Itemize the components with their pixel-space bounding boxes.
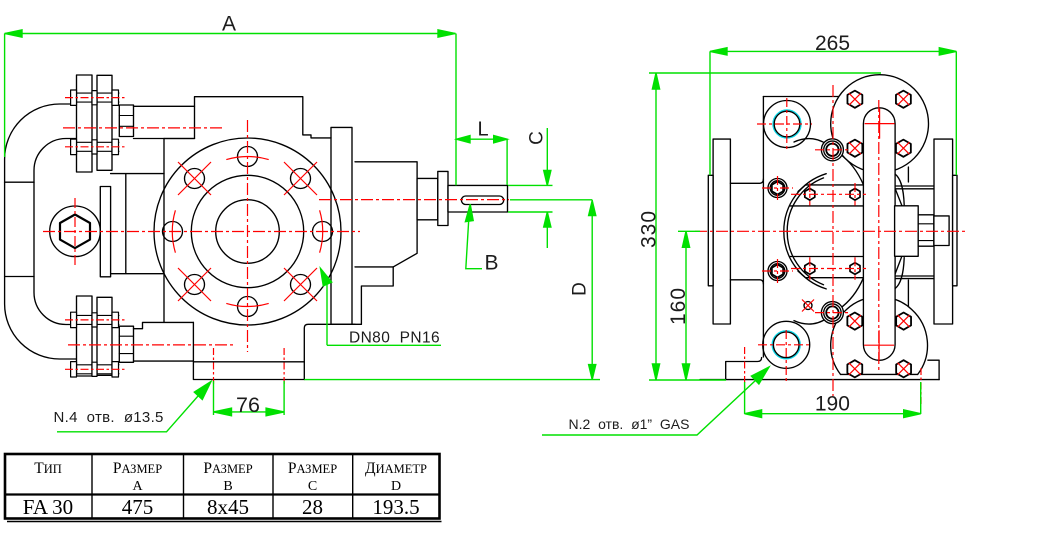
svg-text:ТИП: ТИП (34, 460, 62, 477)
rv top gear cross (865, 109, 895, 139)
top hex nipple (119, 105, 133, 137)
svg-text:FA 30: FA 30 (23, 495, 73, 519)
rv left bolt top (768, 179, 787, 198)
flange bolt hole SW (185, 275, 205, 295)
rv gear hex T-NE (896, 91, 911, 108)
lv hole SW cross (178, 268, 211, 301)
bypass U-pipe outer contour (5, 104, 77, 359)
rv window bolt row top (791, 193, 866, 195)
rv window top line (790, 205, 864, 207)
flange bolt hole left (163, 222, 183, 242)
top flange bolt 1 rod (71, 93, 119, 102)
rv casing outer arc bottom right (839, 278, 864, 309)
svg-text:8x45: 8x45 (207, 495, 249, 519)
rv base right (928, 360, 939, 379)
svg-text:B: B (484, 252, 498, 275)
lv bolt circle arc top (226, 157, 268, 160)
RED-CENTERLINES (43, 85, 965, 405)
rv casing ring arc 1 (784, 174, 826, 289)
svg-text:475: 475 (122, 495, 154, 519)
table column dividers (92, 454, 353, 519)
table header divider (5, 493, 440, 495)
CYAN port threads (773, 110, 801, 358)
flange bolt hole NW (185, 169, 205, 189)
rv window bottom line (790, 256, 864, 258)
shaft (448, 185, 508, 212)
rv top port bore (774, 111, 800, 137)
rv bottom port bore (773, 332, 799, 358)
lv top bolt1 axis (65, 97, 126, 99)
keyway (461, 196, 503, 205)
plug mount plate (111, 174, 164, 274)
dim 265 ext left (709, 51, 711, 175)
rv left bolt bottom (768, 262, 787, 281)
rv casing outer arc top right (839, 154, 864, 185)
rv window upper step (798, 185, 863, 192)
rv nut facets (918, 224, 934, 241)
rv window bolt SE (850, 263, 860, 275)
rv gear bolt X B-SW (849, 363, 861, 375)
LEFT-VIEW-BLACK (5, 75, 508, 380)
rv gear bolt X T-NE (897, 93, 909, 105)
dim 330/160 ext bottom (649, 379, 726, 381)
RIGHT-VIEW-BLACK (700, 75, 957, 380)
dim 160 ext top (678, 230, 700, 232)
svg-text:28: 28 (302, 495, 323, 519)
bottom flange bolt 2 rod (71, 365, 119, 374)
rv gear bolt X B-NE (898, 315, 910, 327)
rv window bolt row bottom (791, 268, 866, 270)
rv gear hex B-SW (847, 360, 862, 377)
dim C line bottom (546, 212, 548, 248)
lv hole SE cross (284, 268, 317, 301)
lv hole NW cross (178, 162, 211, 195)
bottom hex nipple (119, 326, 133, 362)
svg-text:190: 190 (815, 393, 850, 416)
dim A arrows (5, 30, 456, 37)
rv top port cross (757, 98, 812, 151)
top flange bolt 2 nuts (71, 139, 119, 154)
rv window right swoop top (895, 174, 904, 205)
lv foot hole left centerline (213, 348, 215, 385)
rv body left edge (762, 97, 764, 358)
rv bottom gear cross (864, 330, 894, 360)
rv shaft end (934, 216, 949, 246)
flange backing plates (331, 127, 355, 324)
rv base hole left centerline (744, 347, 746, 392)
dim 330 ext top (649, 72, 881, 74)
rv left gasket plate (708, 175, 713, 285)
rv tiny hole X (802, 300, 814, 312)
lv top bolt2 axis (65, 146, 126, 148)
rv obround slot (863, 108, 895, 361)
lv bottom bolt2 axis (65, 368, 126, 370)
rv gear hex T-SW (847, 140, 862, 157)
lv foot hole right centerline (283, 348, 285, 385)
leader B line (466, 207, 482, 269)
lv flange vertical axis (247, 120, 249, 352)
dim 330 arrows (652, 73, 659, 380)
table outer border (5, 454, 440, 519)
foot plate (193, 322, 304, 379)
rv shaft boss (895, 206, 919, 256)
dim 190 line (745, 413, 921, 415)
dim C line top (546, 128, 548, 185)
rv main vertical axis (832, 85, 834, 396)
leader DN80 line (323, 271, 442, 345)
svg-text:265: 265 (815, 32, 850, 55)
flange bolt hole NE (291, 169, 311, 189)
top nipple facets (119, 116, 133, 127)
rv gear hex T-SE (896, 140, 911, 157)
flange bolt hole top (238, 147, 258, 167)
dim 265 line (710, 50, 956, 52)
flange bore circle (216, 200, 280, 264)
flange bolt hole bottom (238, 297, 258, 317)
bottom flange bolt 1 rod (71, 315, 119, 324)
svg-text:N.4 отв. ø13.5: N.4 отв. ø13.5 (54, 409, 164, 426)
dim L arrows (457, 136, 508, 143)
rv cover bolt top axis (815, 149, 850, 151)
rv bottom port boss circle (763, 321, 810, 368)
rv bottom port thread circle (773, 331, 800, 358)
top flange bolt 2 rod (71, 142, 119, 151)
dim D line (591, 200, 593, 380)
bypass U-pipe inner contour (34, 139, 77, 325)
svg-text:193.5: 193.5 (372, 495, 419, 519)
rv gear bolt X B-SE (898, 363, 910, 375)
dim L line (456, 138, 507, 140)
top flange bolt 1 nuts (71, 90, 119, 105)
main flange circle DN80 (154, 138, 341, 325)
rv gear hex B-NE (896, 313, 911, 330)
svg-text:76: 76 (236, 393, 260, 417)
rv left neck (730, 179, 763, 284)
rv window lower step (798, 271, 863, 278)
GREEN-DIMS (5, 30, 957, 435)
svg-text:160: 160 (667, 287, 690, 325)
lower right body corner (304, 324, 361, 379)
rv gear bolt X T-NW (849, 93, 861, 105)
rv casing outer arc bottom (794, 315, 831, 324)
svg-text:330: 330 (638, 210, 661, 248)
svg-text:A: A (222, 13, 236, 36)
rv boss chamfer diagonals (894, 189, 902, 276)
rv body top edge (763, 96, 838, 98)
leader DN80 arrow (321, 269, 332, 286)
top pipe to body (134, 106, 195, 138)
dim 330 line (655, 73, 657, 380)
shaft collar (438, 171, 448, 225)
rv top port boss circle (764, 101, 811, 148)
dim L ext right (506, 139, 508, 185)
top flange plate 1 (77, 75, 93, 172)
leader N2 arrow (751, 367, 769, 384)
dim 76 line (214, 411, 285, 413)
svg-text:N.2 отв. ø1” GAS: N.2 отв. ø1” GAS (569, 416, 690, 432)
hex plug boss plate (100, 187, 110, 277)
bottom flange bolt 2 nuts (71, 362, 119, 377)
rv base hole right centerline (920, 368, 922, 405)
dim 190 arrows (745, 410, 921, 418)
dim A ext left (4, 34, 6, 158)
rv gear bolt X T-SE (897, 142, 909, 154)
rv shaft nut (918, 215, 934, 246)
shaft step cylinder (417, 178, 438, 219)
dim D ext top (510, 199, 592, 201)
table bottom shadow (7, 521, 442, 523)
bottom flange plate 2 (97, 297, 112, 375)
svg-text:РАЗМЕР: РАЗМЕР (288, 460, 337, 477)
dim 190 ext left (744, 382, 746, 414)
dim 190 ext right (920, 382, 922, 414)
svg-text:DN80 PN16: DN80 PN16 (349, 330, 440, 347)
flange bolt hole SE (291, 275, 311, 295)
dim 160 arrows (682, 231, 689, 380)
dim 76 ext right (283, 381, 285, 415)
body hat (164, 97, 331, 139)
dim 265 arrows (710, 48, 956, 55)
rv bottom port cross (758, 330, 810, 383)
rv gear hex B-SE (896, 360, 911, 377)
dim 76 ext left (213, 381, 215, 415)
hex plug hexagon (60, 215, 90, 249)
lv hole NE cross (284, 162, 317, 195)
rv top gear circle (831, 75, 929, 173)
hex plug boss circle (50, 206, 101, 257)
top flange plate 2 (97, 75, 112, 170)
leader N4 line (57, 383, 210, 432)
dim 265 ext right (955, 51, 957, 175)
rv window bolt NE (850, 189, 860, 201)
rv right neck (894, 186, 933, 279)
leader B arrow (465, 204, 473, 221)
svg-text:B: B (223, 479, 232, 494)
lv shaft axis (319, 199, 509, 201)
svg-text:C: C (308, 479, 317, 494)
dim C ext bottom (508, 211, 553, 213)
dim D arrows (589, 201, 596, 380)
rv gear hex B-NW (847, 313, 862, 330)
rv left bolt top cross (762, 176, 793, 200)
rv window right swoop bottom (895, 258, 904, 289)
svg-text:РАЗМЕР: РАЗМЕР (113, 460, 162, 477)
lv bottom pipe axis (68, 344, 235, 346)
dim C arrows (544, 170, 551, 227)
bottom pipe to body (134, 322, 194, 361)
housing lower steps (361, 267, 393, 324)
dim C ext top (508, 184, 553, 186)
rv bottom chord (841, 373, 918, 375)
rv gear hex T-NW (847, 91, 862, 108)
svg-text:ДИАМЕТР: ДИАМЕТР (365, 460, 427, 477)
body left edge (163, 139, 165, 323)
rv window bolt SW (805, 263, 815, 275)
leader N2 line (542, 380, 756, 435)
U-pipe joint line bottom (5, 276, 34, 278)
lv bolt circle arc right (320, 210, 323, 252)
rv base left (700, 358, 762, 380)
rv gear bolt X T-SW (849, 142, 861, 154)
rv top port thread circle (773, 110, 800, 137)
rv cover bolt bottom axis (815, 312, 850, 314)
dim 160 line (685, 231, 687, 380)
rv left flange plate (713, 139, 730, 324)
rv cover bolt bottom rings (821, 302, 843, 324)
rv cover bolt top rings (821, 139, 843, 161)
lv flange horizontal axis (43, 231, 360, 233)
rv casing ring arc 2 (787, 178, 823, 285)
rv window bolt NW (805, 189, 815, 201)
svg-text:L: L (477, 119, 488, 141)
dim D ext bottom (304, 379, 600, 381)
svg-text:C: C (527, 131, 548, 145)
flange bolt hole right (313, 222, 333, 242)
lv plug cross (74, 198, 76, 266)
bottom flange plate 1 (77, 296, 93, 376)
flange raised face circle (191, 175, 303, 287)
U-pipe joint line top (5, 181, 34, 183)
bottom nipple facets (119, 336, 133, 353)
lv bottom bolt1 axis (65, 319, 126, 321)
dim A ext right / dim L ext left (455, 34, 457, 186)
rv main horizontal axis (695, 230, 965, 232)
dim A line (5, 33, 456, 35)
rv window bolt verticals (810, 183, 855, 280)
svg-text:D: D (391, 479, 401, 494)
rv tiny hole (804, 302, 812, 310)
bottom flange bolt 1 nuts (71, 312, 119, 327)
leader N4 arrow (194, 382, 211, 400)
rv gear bolt X B-NW (849, 315, 861, 327)
rv left bolt bottom cross (762, 259, 793, 283)
rv right gasket plate (953, 175, 957, 285)
rv right flange plate (934, 139, 953, 324)
rv body right edge (907, 167, 909, 318)
lv bolt circle arc left (172, 210, 175, 252)
svg-text:D: D (570, 282, 591, 296)
bearing housing (355, 162, 417, 267)
rv base bottom (726, 379, 939, 381)
lv bolt circle arc bottom (226, 303, 268, 306)
lv top pipe axis (63, 127, 225, 129)
svg-text:A: A (132, 479, 143, 494)
rv casing outer arc top (794, 139, 831, 148)
rv gear vertical axis (878, 100, 880, 370)
TABLE (5, 454, 442, 522)
dim 76 arrows (214, 408, 285, 416)
svg-text:РАЗМЕР: РАЗМЕР (203, 460, 252, 477)
rv bottom gear circle (831, 297, 928, 375)
